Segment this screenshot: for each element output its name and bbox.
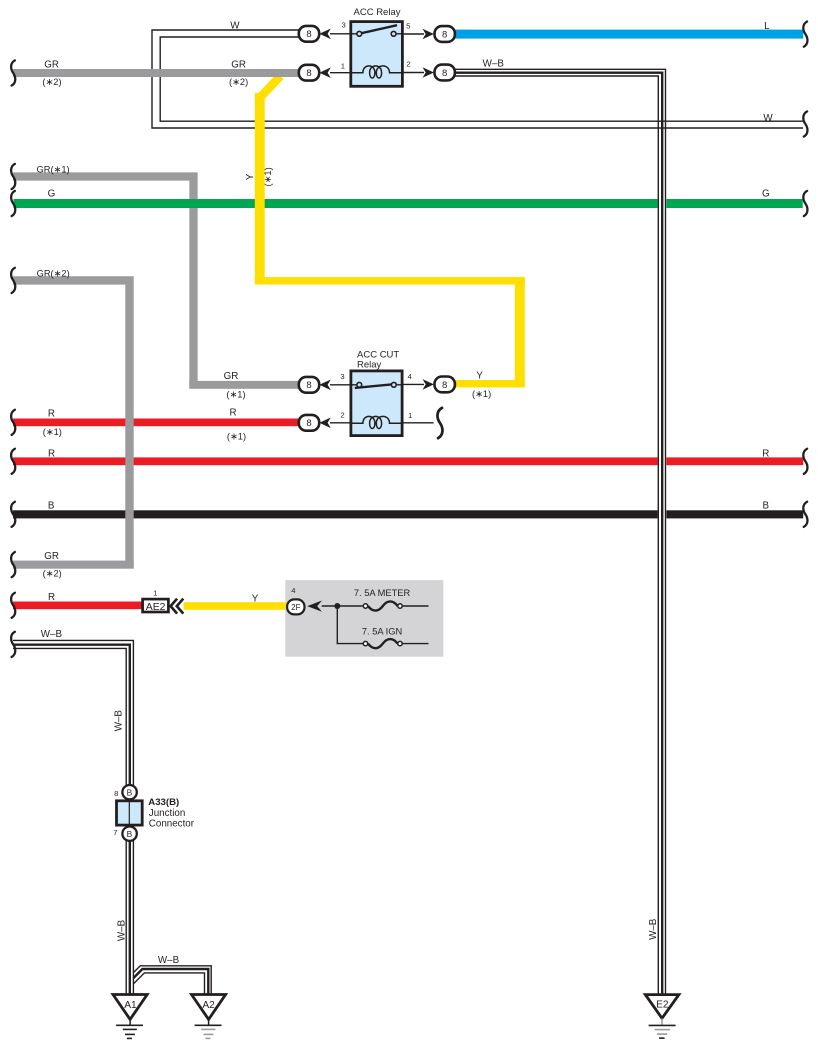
wire GR(*2) from left edge down (13, 280, 130, 564)
svg-text:ACC Relay: ACC Relay (354, 7, 401, 18)
svg-text:(∗2): (∗2) (229, 77, 248, 87)
svg-text:GR(∗1): GR(∗1) (37, 165, 70, 175)
wire stub ACC relay pin3 (330, 33, 351, 35)
wire GR(*2) stub to left edge (13, 561, 134, 569)
svg-text:(∗1): (∗1) (226, 390, 245, 400)
svg-text:4: 4 (407, 372, 412, 381)
ground A2 symbol (195, 1019, 222, 1038)
svg-text:1: 1 (341, 61, 345, 70)
arrow into 2F (307, 601, 322, 612)
svg-text:8: 8 (114, 789, 118, 798)
wire Y vertical 2 (515, 277, 525, 387)
wire W-B from ACC relay pin2 to E2 (outer thin line) (455, 69, 666, 994)
svg-text:W–B: W–B (117, 919, 128, 941)
wire stub ACC relay pin5 (403, 33, 424, 35)
wire GR(*1) horizontal into connector (189, 381, 299, 389)
junction connector A33(B) body (117, 801, 143, 825)
svg-text:Y: Y (252, 594, 259, 605)
svg-text:1: 1 (408, 411, 412, 420)
svg-text:A2: A2 (202, 1000, 215, 1011)
svg-text:GR: GR (44, 59, 59, 70)
break right B (803, 502, 807, 527)
svg-text:W–B: W–B (648, 918, 659, 940)
svg-text:B: B (127, 787, 133, 797)
wire W-B bottom left (inner thin line) (13, 648, 126, 994)
wire GR top to ACC relay (13, 69, 299, 77)
break left W-B (11, 632, 15, 657)
junction connector A33(B) top circle B (122, 785, 136, 799)
svg-text:(∗1): (∗1) (263, 167, 273, 186)
wire junction to IGN fuse (337, 606, 363, 644)
ACC Relay switch (352, 25, 402, 36)
connector 8 at ACC relay pin5 (435, 26, 455, 42)
arrow into ACC CUT pin3 connector (319, 380, 330, 391)
ground A1 symbol (116, 1019, 143, 1038)
wire Y from AE2 to 2F (184, 602, 288, 610)
wire W-B branch to A2 (top thin line) (133, 966, 211, 995)
svg-text:(∗1): (∗1) (227, 432, 246, 442)
wire R (*1) to ACC CUT relay (13, 419, 299, 427)
wire W loop outer (ACC relay pin3 to right edge) (152, 30, 803, 128)
arrow into pin3 connector (319, 29, 330, 40)
svg-text:W–B: W–B (41, 629, 63, 640)
break right G (803, 191, 807, 216)
arrow into ACC CUT pin4 connector (423, 379, 434, 390)
svg-text:W: W (230, 20, 240, 31)
wire from 2F to fuses (322, 605, 363, 607)
wire L blue (455, 30, 804, 39)
svg-text:R: R (762, 449, 769, 460)
wire W-B from ACC relay pin2 to E2 (inner thin line) (455, 76, 659, 995)
svg-text:W–B: W–B (158, 955, 180, 966)
svg-text:W: W (763, 113, 773, 124)
junction dot (334, 603, 340, 609)
svg-text:5: 5 (406, 22, 410, 31)
junction connector A33(B) bottom circle B (122, 827, 136, 841)
wire Y into ACC CUT pin4 connector (455, 380, 525, 387)
svg-text:B: B (763, 501, 770, 512)
svg-text:1: 1 (153, 588, 157, 597)
ground A2 triangle (192, 995, 226, 1020)
ground A1 triangle (113, 995, 147, 1020)
svg-text:E2: E2 (656, 999, 669, 1010)
wire stub ACC CUT relay pin4 (403, 383, 424, 385)
wire Y from GR wire down (diagonal) (260, 76, 280, 97)
break right R (803, 449, 807, 474)
break left R(*1) (11, 410, 15, 435)
svg-text:Relay: Relay (357, 360, 382, 371)
svg-text:B: B (48, 501, 55, 512)
svg-text:GR: GR (44, 551, 59, 562)
svg-text:L: L (764, 21, 770, 32)
connector 8 at ACC CUT pin3 (299, 377, 319, 393)
break left B (11, 502, 15, 527)
wire R to AE2 (13, 602, 142, 610)
ACC Relay coil (352, 66, 402, 78)
wire W-B from ACC relay pin2 to E2 (center stripe) (455, 73, 663, 995)
svg-text:3: 3 (340, 372, 344, 381)
wire W-B branch to A2 (bottom thin line) (133, 973, 204, 995)
svg-text:G: G (48, 189, 56, 200)
wire Y horizontal (255, 277, 525, 284)
ACC CUT Relay box (351, 371, 402, 436)
connector 8 at ACC CUT pin4 (435, 377, 455, 393)
svg-text:R: R (48, 449, 55, 460)
connector 8 at ACC relay pin3 (299, 26, 319, 42)
svg-text:Connector: Connector (149, 819, 195, 830)
wire W loop inner (160, 37, 803, 121)
svg-text:7: 7 (113, 828, 117, 837)
connector 8 at ACC relay pin1 (299, 65, 319, 81)
svg-text:A33(B): A33(B) (148, 797, 179, 808)
svg-text:Junction: Junction (149, 808, 186, 819)
break left R AE2 (11, 593, 15, 618)
wire stub ACC CUT relay pin1 (403, 422, 434, 424)
svg-text:AE2: AE2 (146, 602, 166, 613)
connector 2F oval (287, 599, 304, 614)
svg-text:A1: A1 (124, 1000, 137, 1011)
ACC CUT Relay switch (352, 382, 402, 388)
break left GR(*1) (11, 164, 15, 189)
connector 8 at ACC relay pin2 (435, 65, 455, 81)
arrow into pin5 connector (423, 29, 434, 40)
svg-text:(∗2): (∗2) (42, 77, 61, 87)
wire R main (right of E2 line) (666, 457, 803, 465)
break at ACC CUT relay pin1 (437, 408, 442, 438)
svg-text:R: R (48, 408, 55, 419)
svg-text:W–B: W–B (483, 59, 505, 70)
svg-text:GR: GR (231, 59, 246, 70)
fuse block panel (285, 580, 443, 657)
svg-text:Y: Y (476, 370, 483, 381)
wire B main (right of E2 line) (666, 510, 803, 518)
chevrons after AE2 (171, 599, 184, 614)
arrow into ACC CUT pin2 connector (319, 418, 330, 429)
svg-text:2: 2 (340, 410, 344, 419)
svg-text:Y: Y (245, 173, 256, 180)
svg-text:(∗1): (∗1) (43, 427, 62, 437)
wire R main (left of E2 line) (13, 457, 658, 465)
fuse 7.5A IGN (363, 639, 428, 648)
svg-text:4: 4 (291, 586, 296, 595)
ground E2 triangle (645, 995, 679, 1019)
svg-text:GR(∗2): GR(∗2) (37, 268, 70, 278)
wire Y vertical 1 (255, 93, 265, 284)
wire stub ACC relay pin2 (403, 72, 424, 74)
break left GR(*2) stub (11, 552, 15, 577)
svg-text:(∗2): (∗2) (43, 569, 62, 579)
connector AE2 box (143, 599, 169, 612)
wire G green (left of E2 line) (14, 199, 658, 208)
wire stub ACC CUT relay pin2 (330, 422, 351, 424)
svg-text:2F: 2F (291, 603, 300, 612)
wire G green (right of E2 line) (666, 199, 802, 208)
svg-text:3: 3 (341, 21, 345, 30)
arrow into pin2 connector (423, 67, 434, 78)
break left GR(*2) (11, 268, 15, 293)
svg-text:G: G (762, 189, 770, 200)
wire GR(*1) from left edge down to ACC CUT relay (13, 177, 194, 385)
arrow into pin1 connector (319, 67, 330, 78)
svg-text:R: R (229, 408, 236, 419)
break right L (803, 21, 807, 46)
break left GR top (11, 60, 15, 85)
break left G (11, 191, 15, 216)
ACC Relay box (351, 22, 403, 87)
svg-text:R: R (48, 592, 55, 603)
svg-text:(∗1): (∗1) (472, 389, 491, 399)
wire stub ACC CUT relay pin3 (330, 384, 351, 386)
svg-text:7. 5A IGN: 7. 5A IGN (362, 627, 402, 637)
wire stub ACC relay pin1 (330, 72, 351, 74)
svg-text:W–B: W–B (114, 710, 125, 732)
svg-text:2: 2 (406, 60, 410, 69)
wire B main (left of E2 line) (13, 510, 658, 518)
wire W-B bottom left (outer thin line) (13, 640, 133, 994)
break left R (11, 449, 15, 474)
ground E2 symbol (649, 1018, 676, 1038)
wire W-B bottom left (center stripe) (13, 645, 130, 995)
svg-text:7. 5A METER: 7. 5A METER (354, 588, 411, 598)
wire W-B branch to A2 (center stripe) (133, 969, 208, 995)
ACC CUT Relay coil (352, 416, 402, 428)
break right W (803, 111, 807, 136)
connector 8 at ACC CUT pin2 (299, 415, 319, 431)
svg-text:B: B (127, 829, 133, 839)
fuse 7.5A METER (363, 601, 428, 610)
svg-text:GR: GR (224, 371, 239, 382)
